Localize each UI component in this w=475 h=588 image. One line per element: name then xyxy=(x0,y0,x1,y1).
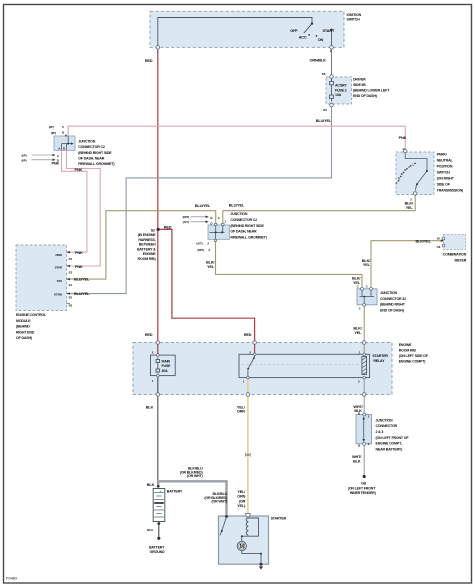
starter solenoid terminal xyxy=(245,514,250,517)
svg-text:N: N xyxy=(401,172,403,176)
svg-text:BLU/YEL: BLU/YEL xyxy=(229,203,245,208)
svg-text:(M/T): (M/T) xyxy=(197,248,204,252)
wire BLK/BLU battery to starter (thick) xyxy=(158,481,226,516)
wire WHT/BLK relay coil to junction connector xyxy=(363,378,365,415)
svg-text:ENGINE COMPT): ENGINE COMPT) xyxy=(399,359,427,363)
battery xyxy=(153,489,165,522)
svg-text:ENGINE CONTROL: ENGINE CONTROL xyxy=(16,313,47,317)
svg-text:(M/T): (M/T) xyxy=(183,215,190,219)
svg-text:BATTERY &: BATTERY & xyxy=(137,247,156,251)
svg-text:HARNESS,: HARNESS, xyxy=(138,238,155,242)
svg-text:YEL: YEL xyxy=(363,262,371,267)
svg-text:2 & 3: 2 & 3 xyxy=(376,430,384,434)
svg-text:OF DASH, NEAR: OF DASH, NEAR xyxy=(230,230,257,234)
park/neutral position switch box xyxy=(396,152,434,195)
svg-text:ROOM R/B: ROOM R/B xyxy=(399,348,417,352)
splice S2 xyxy=(156,228,159,231)
junction C2 left variant stubs xyxy=(32,154,54,156)
svg-text:YEL: YEL xyxy=(207,264,215,269)
svg-text:BATTERY: BATTERY xyxy=(149,545,165,549)
splice S2 location text xyxy=(137,233,156,261)
svg-text:D6: D6 xyxy=(322,72,326,76)
svg-text:JUNCTION: JUNCTION xyxy=(230,212,248,216)
svg-text:NEAR BATTERY): NEAR BATTERY) xyxy=(376,447,404,451)
svg-text:DRIVER: DRIVER xyxy=(353,77,366,81)
svg-text:(I/P): (I/P) xyxy=(22,158,27,162)
battery terminals xyxy=(157,485,160,488)
svg-text:RELAY: RELAY xyxy=(373,359,385,363)
svg-text:BATTERY: BATTERY xyxy=(167,490,183,494)
svg-text:(ON LEFT FRONT OF: (ON LEFT FRONT OF xyxy=(376,436,410,440)
park/neutral contact dots xyxy=(398,163,416,182)
engine room R/B box xyxy=(133,343,392,395)
svg-text:FIREWALL GROMMET): FIREWALL GROMMET) xyxy=(78,162,115,166)
svg-text:PNK: PNK xyxy=(75,250,83,255)
park/neutral switch name xyxy=(437,153,464,193)
svg-text:NEUTRAL: NEUTRAL xyxy=(437,159,454,163)
combination meter name xyxy=(443,253,467,263)
svg-text:YEL: YEL xyxy=(406,205,414,210)
fuse block terminals xyxy=(330,75,334,107)
wire BLK/YEL combination meter to junction xyxy=(371,241,443,289)
svg-text:(IN ENGINE: (IN ENGINE xyxy=(138,233,157,237)
svg-text:30A: 30A xyxy=(162,369,169,373)
svg-text:K6: K6 xyxy=(323,108,327,112)
battery ground xyxy=(157,537,160,540)
svg-text:P: P xyxy=(396,181,398,185)
junction connector C2 middle internals xyxy=(210,225,225,239)
svg-text:CONNECTOR C2: CONNECTOR C2 xyxy=(78,145,105,149)
svg-text:(OR WHT): (OR WHT) xyxy=(211,500,228,504)
svg-text:(BEHIND RIGHT: (BEHIND RIGHT xyxy=(380,303,406,307)
relay coil xyxy=(362,357,367,375)
svg-text:FUSE: FUSE xyxy=(162,364,172,368)
svg-text:(I/P): (I/P) xyxy=(51,131,56,135)
svg-text:BLU/YEL: BLU/YEL xyxy=(74,291,90,296)
junction connector box (bottom right) xyxy=(356,415,372,444)
junction connector mid-right internals xyxy=(360,290,375,305)
svg-text:PNK: PNK xyxy=(399,135,407,140)
svg-text:BETWEEN: BETWEEN xyxy=(139,243,156,247)
svg-text:ENGINE COMPT,: ENGINE COMPT, xyxy=(376,442,403,446)
svg-text:CONNECTOR: CONNECTOR xyxy=(376,424,398,428)
svg-text:STARTER: STARTER xyxy=(372,354,388,358)
svg-text:MODULE: MODULE xyxy=(16,319,31,323)
svg-text:R: R xyxy=(398,176,400,180)
svg-text:SWITCH: SWITCH xyxy=(347,18,361,22)
label BLK/BLU lower xyxy=(204,492,228,504)
svg-text:OF DASH, NEAR: OF DASH, NEAR xyxy=(78,156,105,160)
svg-text:ON: ON xyxy=(318,37,324,42)
svg-text:(ON LEFT FRONT: (ON LEFT FRONT xyxy=(348,486,376,490)
main fuse symbol xyxy=(156,358,160,374)
svg-text:NSW: NSW xyxy=(55,253,62,257)
svg-text:STSW: STSW xyxy=(54,292,62,296)
park/neutral switch terminals xyxy=(403,149,417,195)
wire BLK/YEL park/neutral to junction connector xyxy=(223,193,415,225)
wire BLK/YEL junction C2 down to mid-right junction xyxy=(216,239,363,288)
starter internals xyxy=(225,515,228,518)
ECM name xyxy=(16,313,47,340)
svg-text:(I/P): (I/P) xyxy=(49,125,54,129)
starter box xyxy=(219,516,269,564)
svg-text:ORN: ORN xyxy=(237,409,245,414)
svg-text:ORN/BLK: ORN/BLK xyxy=(310,58,327,63)
svg-text:METER: METER xyxy=(455,258,467,262)
svg-text:BLU/YEL: BLU/YEL xyxy=(74,277,90,282)
svg-text:M: M xyxy=(240,544,244,550)
junction connector bottom-right name xyxy=(376,418,410,451)
svg-text:10A: 10A xyxy=(335,93,342,97)
relay and fuse box terminals xyxy=(157,353,366,379)
svg-text:RED: RED xyxy=(145,58,153,63)
svg-text:(A/T): (A/T) xyxy=(183,220,189,224)
starter relay box xyxy=(239,354,370,377)
wire PNK junction D to ECM STAR xyxy=(67,150,101,266)
svg-text:SIDE I/B: SIDE I/B xyxy=(353,83,366,87)
svg-text:E6: E6 xyxy=(69,304,73,308)
svg-text:JUNCTION: JUNCTION xyxy=(376,418,394,422)
svg-text:BLU/YEL: BLU/YEL xyxy=(316,118,332,123)
ECM pin rows xyxy=(67,252,71,303)
wire PNK junction connector to park/neutral switch xyxy=(68,126,405,150)
svg-text:(A/T): (A/T) xyxy=(196,242,202,246)
svg-text:(BEHIND LOWER LEFT: (BEHIND LOWER LEFT xyxy=(353,88,390,92)
mid-right junction pin circles xyxy=(361,287,373,306)
svg-text:E5: E5 xyxy=(69,295,73,299)
svg-text:(ON RIGHT: (ON RIGHT xyxy=(437,177,455,181)
svg-text:BLK: BLK xyxy=(353,459,361,464)
svg-text:ACC: ACC xyxy=(299,35,307,40)
ignition switch pin terminals xyxy=(156,46,333,50)
svg-text:NCA: NCA xyxy=(147,528,154,532)
svg-text:(OR WHT): (OR WHT) xyxy=(187,474,204,478)
park/neutral switch internals xyxy=(405,153,427,191)
svg-text:COMBINATION: COMBINATION xyxy=(443,253,467,257)
svg-text:C8: C8 xyxy=(437,245,441,249)
svg-text:ENGINE: ENGINE xyxy=(143,252,156,256)
ground G8 xyxy=(363,475,366,478)
svg-text:ACSRY: ACSRY xyxy=(335,84,347,88)
svg-text:(ON LEFT SIDE OF: (ON LEFT SIDE OF xyxy=(399,354,429,358)
C2 middle left variant stubs xyxy=(191,216,207,218)
svg-text:OFF: OFF xyxy=(290,28,298,33)
starter internal wires xyxy=(242,518,261,564)
svg-text:INNER FENDER): INNER FENDER) xyxy=(350,491,377,495)
driver side I/B name xyxy=(353,77,390,98)
svg-text:POSITION: POSITION xyxy=(437,165,453,169)
wire ORN/BLK ignition to fuse block xyxy=(331,47,333,76)
svg-text:E4: E4 xyxy=(69,257,73,261)
engine room R/B name xyxy=(399,343,429,364)
svg-text:16: 16 xyxy=(437,237,441,241)
svg-text:(BEHIND RIGHT SIDE: (BEHIND RIGHT SIDE xyxy=(230,224,264,228)
junction connector mid-right name xyxy=(380,291,406,312)
junction connector C2 box (middle) xyxy=(208,225,229,239)
starter ground xyxy=(260,563,263,566)
svg-text:(BEHIND: (BEHIND xyxy=(16,325,30,329)
svg-text:JUNCTION: JUNCTION xyxy=(380,291,398,295)
wire BLK/YEL junction down to starter relay coil xyxy=(363,305,365,355)
svg-text:RED: RED xyxy=(145,332,153,337)
svg-text:BLK: BLK xyxy=(146,404,154,409)
svg-text:RIGHT END: RIGHT END xyxy=(16,330,35,334)
inline connector on YEL wire xyxy=(245,453,250,457)
svg-text:FIREWALL GROMMET): FIREWALL GROMMET) xyxy=(230,235,267,239)
svg-text:STARTER: STARTER xyxy=(271,516,287,520)
wire BLK fuse to battery xyxy=(157,376,159,486)
svg-text:OF DASH): OF DASH) xyxy=(16,336,33,340)
wire BLK/YEL ECM STA to junction connector xyxy=(68,211,216,279)
svg-text:CONNECTOR C2: CONNECTOR C2 xyxy=(230,218,257,222)
svg-text:SWITCH: SWITCH xyxy=(437,171,451,175)
svg-text:D: D xyxy=(404,168,406,172)
svg-text:CONNECTOR 32: CONNECTOR 32 xyxy=(380,297,406,301)
svg-text:PNK: PNK xyxy=(75,264,83,269)
starter motor xyxy=(237,541,246,550)
svg-text:TRANSMISSION): TRANSMISSION) xyxy=(437,189,464,193)
svg-text:BLU/YEL: BLU/YEL xyxy=(195,203,211,208)
junction connector C2 top-left internals xyxy=(62,136,73,150)
relay contact xyxy=(248,354,255,377)
engine room R/B border pin circles xyxy=(156,341,366,397)
junction connector box (mid right) xyxy=(357,289,377,305)
label BLK/BLU upper xyxy=(180,466,204,478)
svg-text:BLK/YEL: BLK/YEL xyxy=(416,238,432,243)
wire BLU/YEL fuse to ECM STSW xyxy=(68,106,332,294)
svg-text:(BEHIND RIGHT SIDE: (BEHIND RIGHT SIDE xyxy=(78,151,112,155)
svg-text:END OF DASH): END OF DASH) xyxy=(380,308,405,312)
ECM box xyxy=(16,245,67,311)
starter solenoid coil xyxy=(246,518,248,536)
svg-text:E1: E1 xyxy=(69,283,73,287)
svg-text:RED: RED xyxy=(164,225,172,230)
svg-text:YEL: YEL xyxy=(354,330,362,335)
junction connector C2 middle name xyxy=(230,212,267,239)
ECM pin id labels xyxy=(69,257,73,307)
wire RED ignition to splice S2 to fuse xyxy=(157,47,159,355)
main fuse box in engine room R/B xyxy=(151,355,176,376)
relay internal dashed link xyxy=(242,364,360,366)
park/neutral tiny position letters xyxy=(396,162,415,185)
svg-text:START: START xyxy=(323,28,336,33)
wire YEL/ORN relay to starter xyxy=(247,378,249,514)
svg-text:END OF DASH): END OF DASH) xyxy=(353,94,378,98)
svg-text:MAIN: MAIN xyxy=(162,359,171,363)
ignition switch contact dots xyxy=(308,22,332,36)
svg-text:STAR: STAR xyxy=(55,265,63,269)
svg-text:ROOM R/B): ROOM R/B) xyxy=(138,257,157,261)
combination meter pins xyxy=(442,237,445,247)
fuse symbol in driver side I/B xyxy=(330,79,334,102)
C2 middle top pin squares xyxy=(214,223,224,241)
svg-text:RED: RED xyxy=(244,332,252,337)
junction connector bottom-right internals xyxy=(363,419,365,441)
junction connector C2 box (top left) xyxy=(54,136,75,150)
ignition switch internal circuit xyxy=(158,18,332,46)
svg-text:F0482: F0482 xyxy=(6,576,18,581)
svg-text:FUSE 2: FUSE 2 xyxy=(335,88,347,92)
svg-text:SIDE OF: SIDE OF xyxy=(437,183,451,187)
svg-text:ENGINE: ENGINE xyxy=(399,343,412,347)
svg-text:PARK/: PARK/ xyxy=(437,153,447,157)
wire PNK junction A to ECM NSW xyxy=(62,150,87,252)
driver side I/B fuse block box xyxy=(326,77,352,104)
ECM row labels xyxy=(54,253,63,296)
svg-text:PNK: PNK xyxy=(75,167,83,172)
wire RED branch from splice to relay xyxy=(158,229,255,354)
svg-text:GROUND: GROUND xyxy=(150,550,165,554)
svg-text:YEL): YEL) xyxy=(237,503,246,508)
junction connector C2 name (top left) xyxy=(78,140,115,166)
svg-text:S2: S2 xyxy=(151,228,155,232)
svg-text:(I/P): (I/P) xyxy=(22,154,27,158)
ignition switch box xyxy=(150,11,344,47)
label YEL/ORN (OR YEL) at starter xyxy=(237,489,246,508)
svg-text:BLK: BLK xyxy=(147,482,155,487)
combination meter box xyxy=(444,235,466,250)
svg-text:E2: E2 xyxy=(69,271,73,275)
svg-text:JUNCTION: JUNCTION xyxy=(78,140,96,144)
wire WHT/BLK junction to ground G8 xyxy=(363,444,365,476)
svg-text:IGNITION: IGNITION xyxy=(347,13,362,17)
